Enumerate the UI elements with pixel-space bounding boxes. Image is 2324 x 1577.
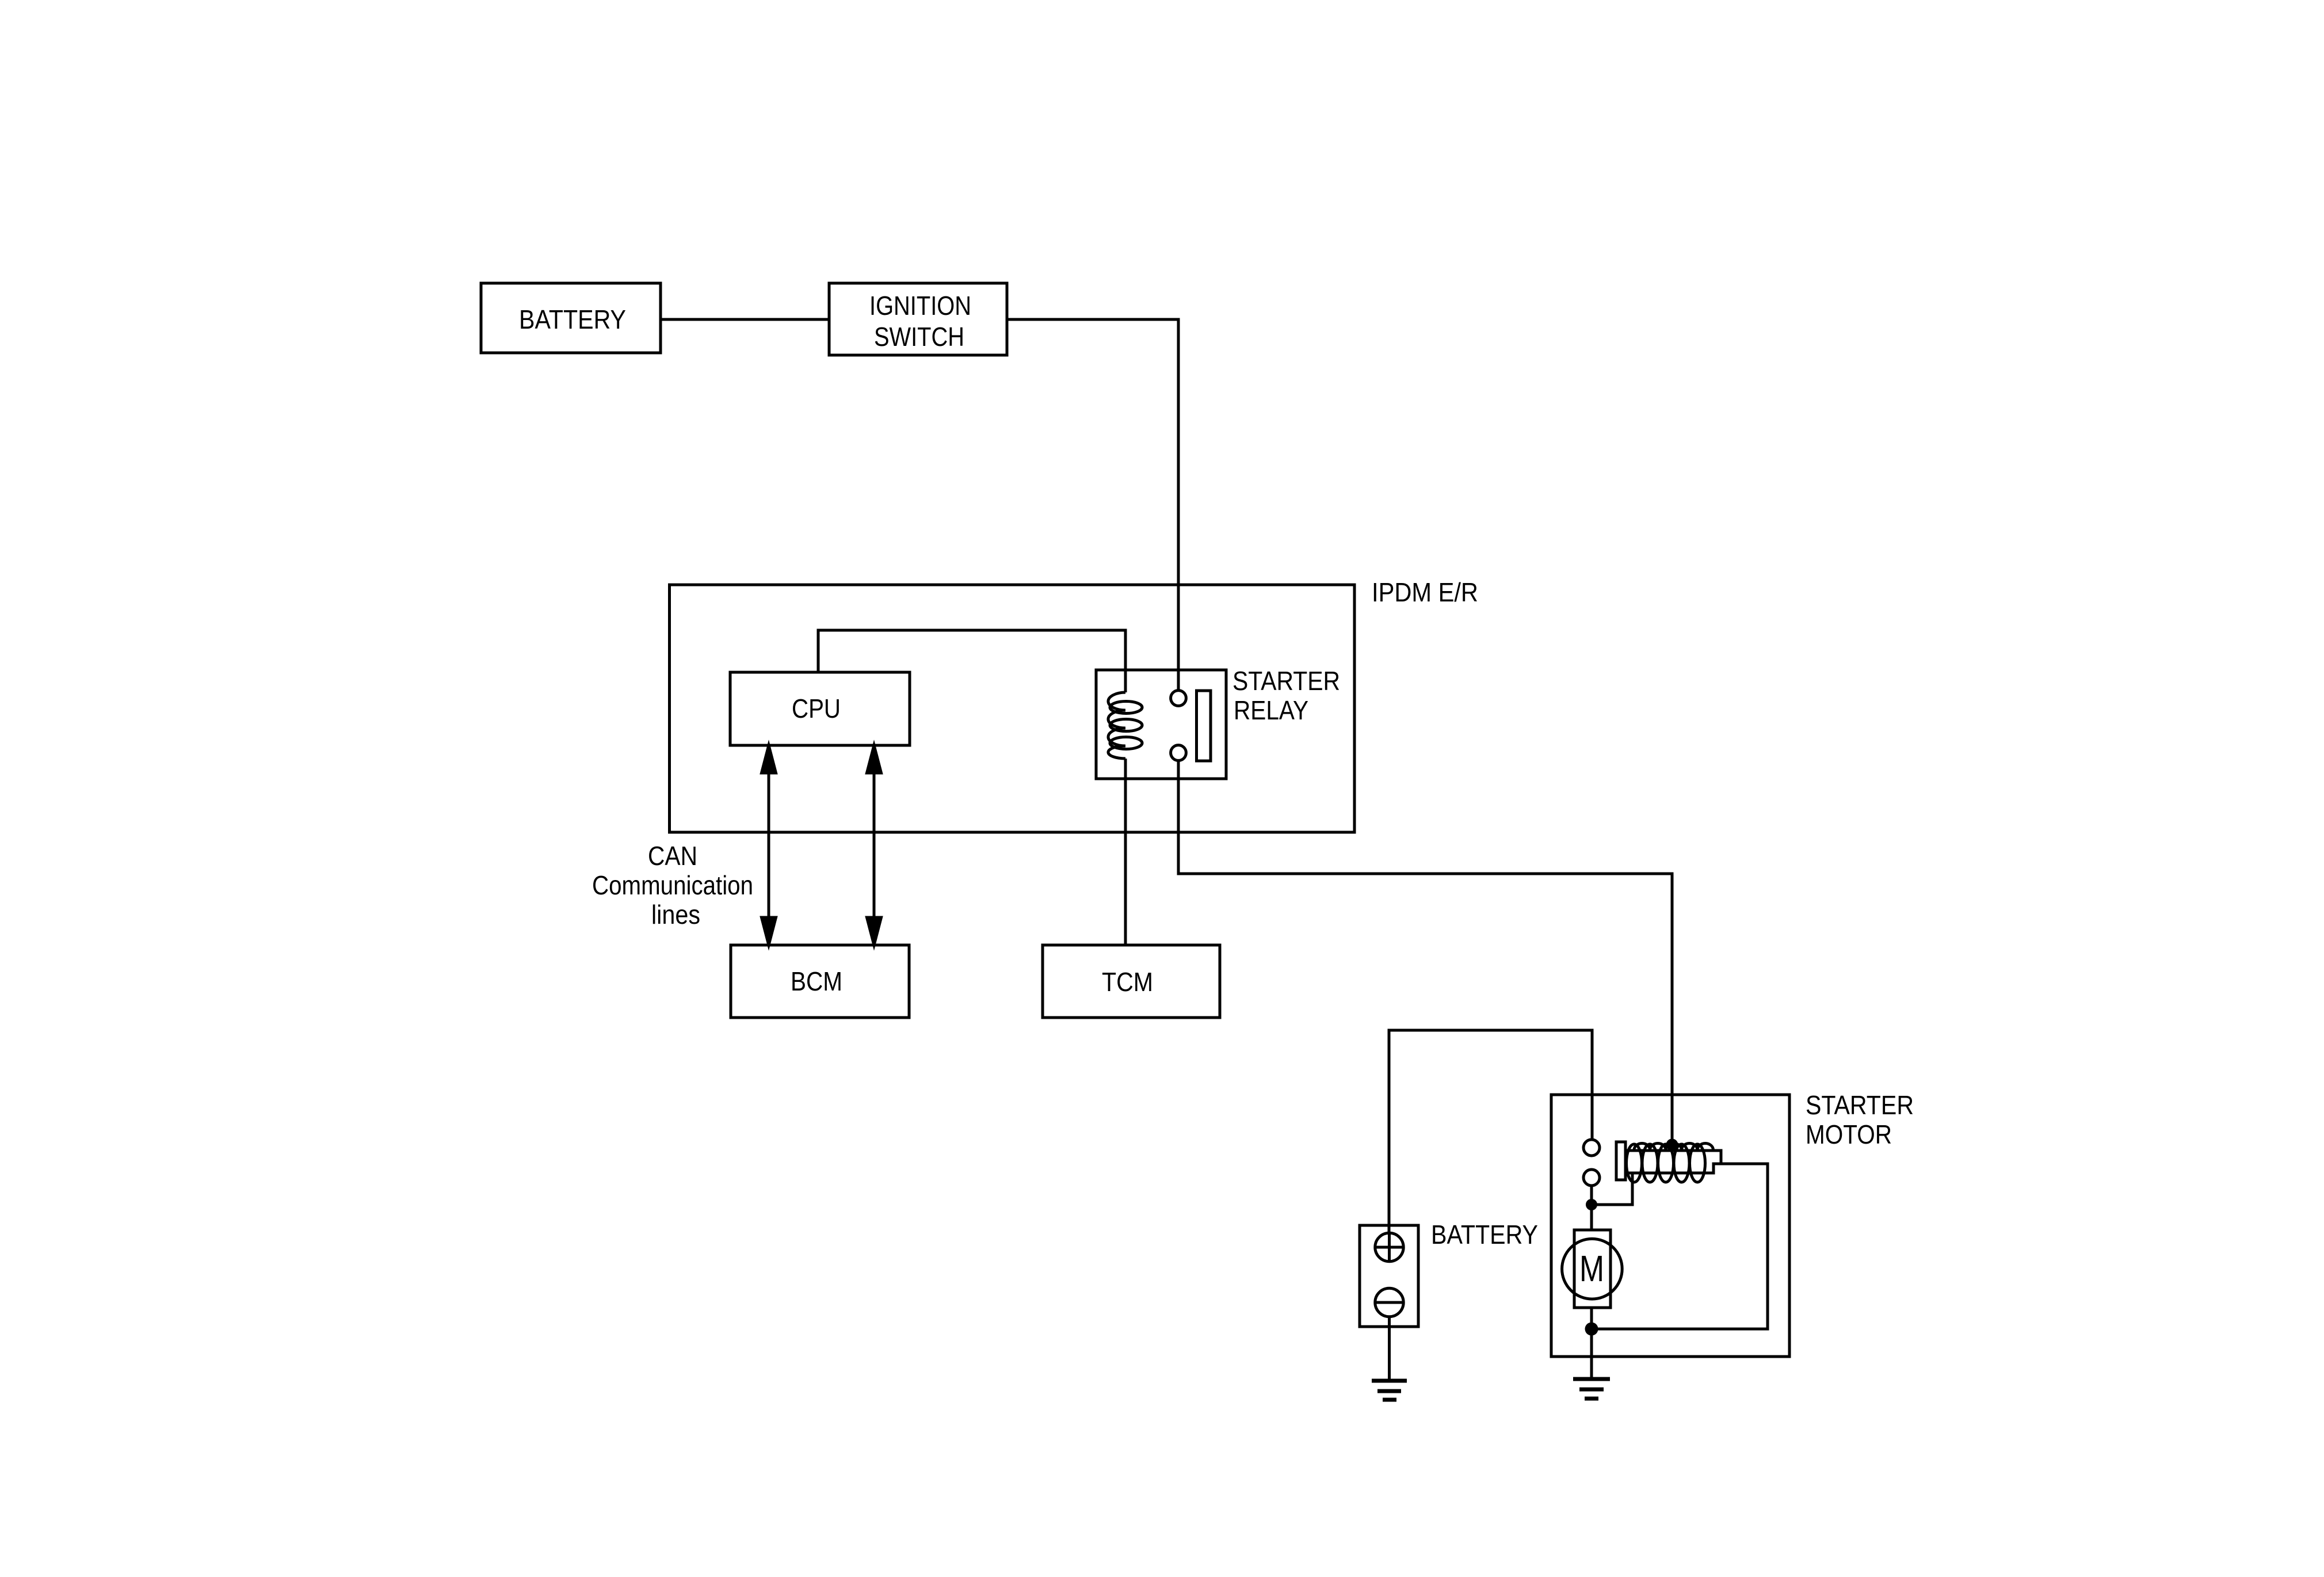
svg-text:lines: lines bbox=[651, 900, 700, 930]
starter motor box bbox=[1551, 1095, 1789, 1357]
svg-text:STARTER: STARTER bbox=[1232, 666, 1340, 696]
wire motor to ground bbox=[1590, 1308, 1593, 1378]
relay contact bar bbox=[1197, 691, 1211, 761]
label IGNITION SWITCH bbox=[869, 291, 971, 352]
label CAN Communication lines bbox=[592, 841, 753, 930]
solenoid coil loops bbox=[1627, 1144, 1714, 1183]
relay coil L1 bbox=[1108, 692, 1142, 759]
wire battery feed to starter motor bbox=[1389, 1030, 1592, 1233]
svg-text:TCM: TCM bbox=[1102, 967, 1153, 997]
relay contact pin circle top bbox=[1171, 691, 1186, 706]
wire contact to junction bbox=[1590, 1186, 1593, 1230]
wire relay coil to TCM bbox=[1124, 759, 1127, 945]
junction node J1 bbox=[1586, 1199, 1597, 1210]
svg-text:BCM: BCM bbox=[791, 966, 842, 996]
svg-text:BATTERY: BATTERY bbox=[519, 304, 626, 334]
relay contact pin circle bottom bbox=[1171, 745, 1186, 761]
solenoid core bbox=[1626, 1151, 1721, 1173]
label STARTER MOTOR bbox=[1806, 1090, 1914, 1149]
svg-text:RELAY: RELAY bbox=[1234, 695, 1308, 725]
svg-text:SWITCH: SWITCH bbox=[874, 322, 964, 352]
svg-text:STARTER: STARTER bbox=[1806, 1090, 1914, 1120]
TCM box bbox=[1043, 945, 1220, 1018]
svg-text:CAN: CAN bbox=[648, 841, 697, 871]
starter relay box K1 bbox=[1096, 670, 1226, 779]
CAN communication line arrow 1 bbox=[762, 745, 776, 945]
svg-text:MOTOR: MOTOR bbox=[1806, 1119, 1892, 1149]
wire junction to solenoid coil bbox=[1592, 1173, 1632, 1205]
wire relay contact to starter motor solenoid bbox=[1178, 760, 1672, 1141]
battery box B1 bbox=[481, 283, 661, 353]
junction node J2 on coil bbox=[1666, 1139, 1678, 1151]
svg-text:M: M bbox=[1579, 1248, 1604, 1289]
ignition switch box S1 bbox=[829, 283, 1007, 355]
junction node J3 bbox=[1585, 1323, 1598, 1336]
motor M1 circle bbox=[1562, 1239, 1623, 1299]
svg-text:IPDM E/R: IPDM E/R bbox=[1372, 577, 1478, 607]
wire solenoid output bbox=[1592, 1164, 1768, 1329]
IPDM E/R box bbox=[670, 585, 1355, 832]
solenoid plunger bar bbox=[1616, 1142, 1625, 1180]
solenoid switch contact circle bottom bbox=[1583, 1170, 1600, 1186]
svg-text:CPU: CPU bbox=[792, 694, 841, 723]
wire ignition switch to starter relay contact bbox=[1007, 319, 1178, 691]
label STARTER RELAY bbox=[1232, 666, 1340, 725]
BCM box bbox=[731, 945, 909, 1018]
svg-text:IGNITION: IGNITION bbox=[869, 291, 971, 321]
wire battery to ground bbox=[1388, 1317, 1391, 1381]
solenoid switch contact circle top bbox=[1583, 1140, 1600, 1156]
CPU box U1 bbox=[730, 672, 910, 745]
motor armature rect bbox=[1574, 1230, 1611, 1308]
svg-text:BATTERY: BATTERY bbox=[1431, 1220, 1538, 1250]
ground GND2 (battery) bbox=[1372, 1381, 1407, 1400]
battery minus terminal bbox=[1375, 1288, 1403, 1316]
battery box B2 bbox=[1360, 1225, 1418, 1327]
CAN communication line arrow 2 bbox=[867, 745, 881, 945]
battery plus terminal bbox=[1375, 1233, 1403, 1261]
wire battery to ignition switch bbox=[661, 318, 829, 321]
svg-text:Communication: Communication bbox=[592, 870, 753, 900]
ground GND1 (starter motor) bbox=[1573, 1379, 1610, 1399]
wire CPU to relay coil bbox=[818, 630, 1125, 692]
